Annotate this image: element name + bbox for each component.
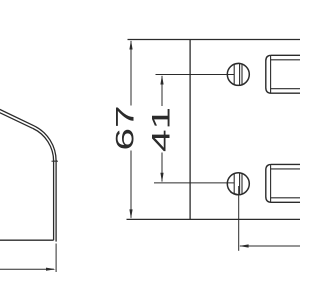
svg-text:41: 41 xyxy=(148,107,175,152)
rail slot 2 outer outline xyxy=(266,164,302,202)
screw 2 centerline extension xyxy=(154,182,235,184)
dimension 41 line lower segment xyxy=(161,153,163,182)
side view slanted top face (double line) xyxy=(0,108,34,128)
screw 2 slot lines xyxy=(231,173,243,195)
screw 2 head circle xyxy=(227,173,249,195)
extension line below side view xyxy=(55,244,57,273)
screw 2 center extension line going down xyxy=(238,186,240,251)
rail slot 1 outer outline xyxy=(266,55,302,93)
side view bottom edge xyxy=(0,239,54,241)
side view width dimension line xyxy=(0,268,54,270)
arrow down 67 xyxy=(129,209,132,219)
arrow up 67 xyxy=(129,40,132,50)
dimension 67 line upper segment xyxy=(130,41,132,106)
arrow right at side view dimension xyxy=(46,268,56,271)
screw 1 centerline extension xyxy=(156,74,235,76)
arrow up 41 xyxy=(160,75,163,85)
dimension 41 line upper segment xyxy=(161,76,163,106)
arrow down 41 xyxy=(160,173,163,183)
plate left edge xyxy=(189,40,191,220)
dimension 67 line lower segment xyxy=(130,151,132,218)
plate top edge with extension (front view) xyxy=(128,39,301,41)
arrow left at bottom dimension xyxy=(239,244,249,247)
bottom dimension line (clipped right) xyxy=(240,245,300,247)
screw 1 head circle xyxy=(227,63,249,85)
svg-text:67: 67 xyxy=(112,105,139,150)
side view rounded corner (outer and inner curve) xyxy=(33,126,56,161)
rail slot 2 inner lines xyxy=(271,165,302,202)
side view right vertical edge (double line) xyxy=(54,160,57,242)
tangent tick at corner xyxy=(52,160,59,162)
rail slot 1 inner lines xyxy=(271,56,302,93)
screw 1 slot lines xyxy=(234,63,242,85)
plate bottom edge with extension xyxy=(127,218,301,220)
